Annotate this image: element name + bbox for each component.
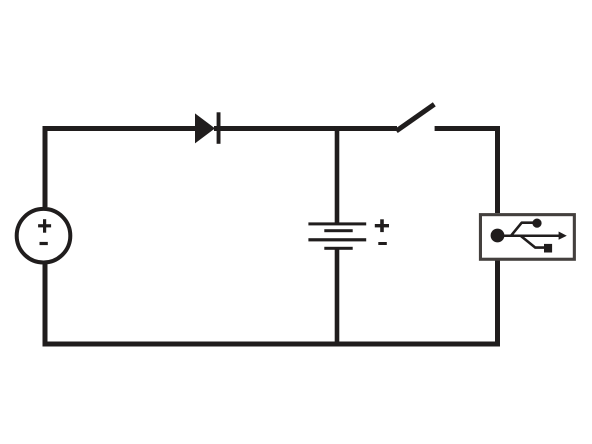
- USB icon arrowhead: [559, 232, 567, 240]
- USB icon small circle terminal: [532, 219, 541, 228]
- USB port box: [480, 215, 574, 260]
- USB icon main shaft: [497, 234, 560, 237]
- wire: middle vertical from battery to bottom rail: [335, 249, 340, 347]
- voltage source V1 plus sign: [38, 219, 51, 233]
- diode D1 triangle: [195, 113, 215, 143]
- switch S1 lever: [396, 104, 434, 131]
- battery BT1 plate 1 (long, top): [308, 222, 366, 225]
- USB icon big circle: [491, 229, 505, 243]
- wire: right vertical below USB box: [495, 260, 500, 347]
- voltage source V1 minus sign: [40, 242, 48, 245]
- battery BT1 minus label: [378, 242, 387, 245]
- wire: left vertical (top) + top rail to diode: [45, 129, 196, 208]
- wire: left vertical below source: [43, 264, 48, 347]
- battery BT1 plate 2 (short): [324, 229, 352, 232]
- diode D1 cathode bar: [217, 112, 221, 144]
- USB icon square terminal: [544, 244, 552, 253]
- battery BT1 plate 4 (short, bottom): [324, 247, 352, 250]
- voltage source V1 circle: [17, 209, 71, 263]
- wire: switch right contact to top-right corner, down to USB box: [435, 129, 498, 214]
- wire: middle vertical from top rail to battery: [335, 126, 340, 223]
- wire: top rail from diode to switch pivot: [214, 126, 397, 131]
- USB icon lower branch: [520, 236, 544, 248]
- battery BT1 plus label: [375, 219, 389, 232]
- wire: bottom rail: [43, 342, 501, 347]
- USB icon upper branch: [511, 223, 534, 237]
- battery BT1 plate 3 (long): [308, 238, 366, 241]
